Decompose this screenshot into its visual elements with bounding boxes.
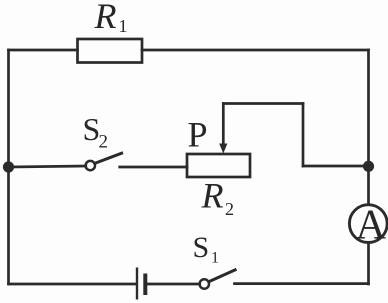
svg-text:R: R	[94, 0, 117, 36]
wire wiper branch top horizontal	[223, 102, 303, 105]
ammeter A	[349, 205, 387, 243]
node right junction	[363, 161, 374, 172]
wire wiper branch to right node	[303, 165, 369, 168]
svg-text:1: 1	[211, 250, 219, 267]
wire middle from switch S2 to rheostat R2	[120, 166, 187, 169]
wire bottom-left from left rail to battery	[9, 283, 137, 286]
wire middle from left node to switch S2	[9, 166, 86, 167]
svg-text:R: R	[201, 176, 224, 216]
wire top-right from R1 to right rail	[142, 49, 369, 52]
switch S2	[86, 153, 123, 171]
svg-text:A: A	[356, 203, 387, 249]
svg-text:2: 2	[225, 199, 234, 219]
wire wiper branch right vertical	[302, 104, 305, 167]
wire right rail lower (ammeter to bottom corner)	[367, 243, 370, 285]
battery B1	[137, 268, 145, 300]
node left junction	[3, 161, 14, 172]
wiper arrow head P	[219, 144, 227, 154]
wire right rail upper (top corner to ammeter)	[367, 50, 370, 205]
resistor R1	[78, 39, 143, 63]
wire bottom-right from switch S1 to right rail	[235, 282, 369, 285]
switch S1	[200, 269, 237, 288]
svg-text:P: P	[188, 115, 208, 155]
wire left rail	[7, 50, 10, 284]
wire bottom from battery to switch S1	[147, 283, 200, 286]
rheostat R2 body	[187, 154, 250, 177]
svg-text:1: 1	[119, 16, 128, 36]
svg-text:S: S	[193, 231, 210, 264]
svg-text:2: 2	[99, 132, 109, 153]
wire top-left from left rail to R1	[9, 49, 78, 52]
wire wiper riser above arrow	[222, 104, 225, 145]
